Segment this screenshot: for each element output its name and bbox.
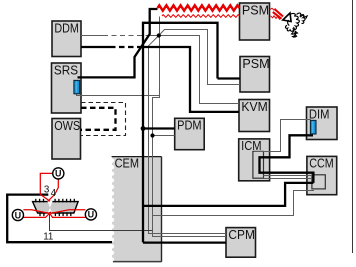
svg-text:4: 4 <box>51 188 57 199</box>
svg-text:PSM: PSM <box>242 57 269 71</box>
svg-text:U: U <box>88 210 95 220</box>
svg-text:U: U <box>55 169 62 179</box>
svg-text:11: 11 <box>43 231 53 242</box>
svg-text:KVM: KVM <box>241 100 267 114</box>
svg-text:CEM: CEM <box>115 157 139 171</box>
svg-text:PSM: PSM <box>242 3 269 17</box>
svg-text:CPM: CPM <box>228 228 255 242</box>
svg-text:OWS: OWS <box>54 119 80 133</box>
svg-text:CCM: CCM <box>309 157 333 171</box>
svg-text:SRS: SRS <box>54 63 78 77</box>
svg-text:DIM: DIM <box>309 107 330 121</box>
svg-text:DDM: DDM <box>54 21 79 35</box>
svg-text:3: 3 <box>44 185 50 196</box>
svg-text:PDM: PDM <box>177 119 202 133</box>
svg-text:U: U <box>15 210 22 220</box>
